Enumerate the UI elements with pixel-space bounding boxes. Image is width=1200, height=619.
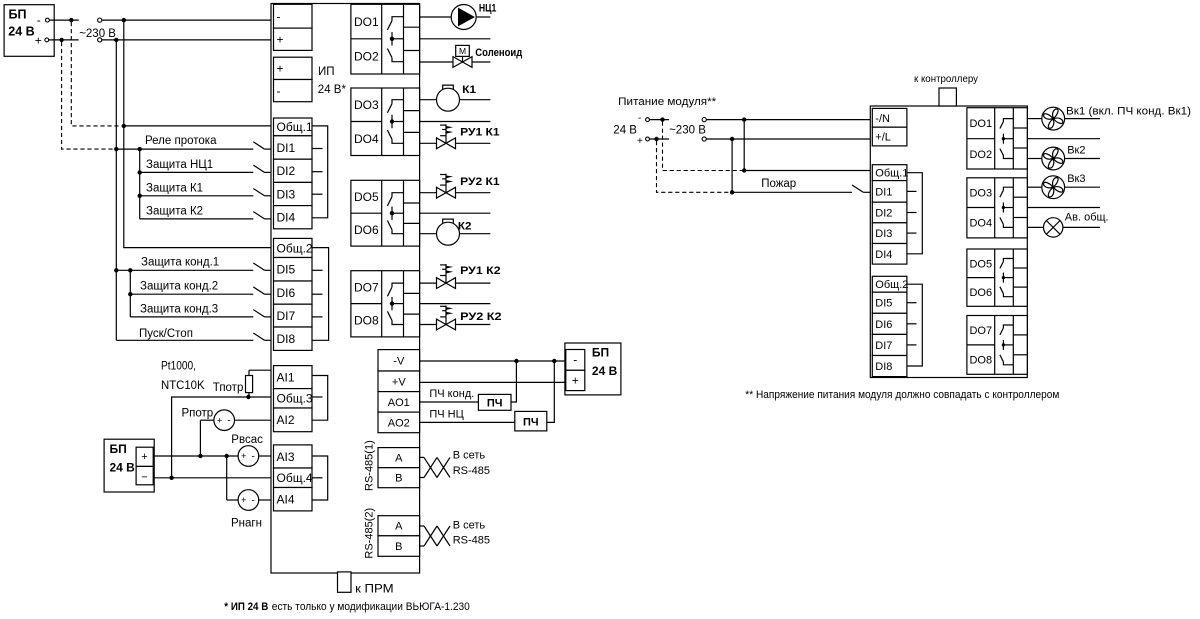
svg-text:DI4: DI4 [875,249,892,261]
svg-text:Общ.3: Общ.3 [277,392,313,406]
wire after НЦ1 [476,16,490,18]
svg-text:DI1: DI1 [277,141,296,155]
wire to Общ.1 (right) [744,170,872,172]
svg-text:AI3: AI3 [277,450,295,464]
wire after lamp [1063,226,1100,228]
svg-text:Рвсас: Рвсас [231,434,263,446]
svg-text:Защита К2: Защита К2 [146,206,203,218]
terminal B (RS-485(2)) [378,536,420,557]
terminal DI1 [274,136,313,159]
svg-text:-/N: -/N [875,113,890,125]
svg-text:Ав. общ.: Ав. общ. [1065,212,1109,224]
terminal DI4 [274,206,313,229]
svg-text:Общ.1: Общ.1 [875,168,908,180]
wire switch to module plus terminal [102,39,274,41]
wire DO5/DO6 common [420,212,491,214]
vertical to Рнагн [226,456,228,500]
junction rail/DI1 feeder [114,147,118,151]
relay output block DO5/DO6 [351,180,420,246]
junction rail/Защита конд.1 [114,268,118,272]
relay output block DO3/DO4 [351,88,420,156]
junction common [169,476,173,480]
svg-text:DO2: DO2 [969,149,992,161]
module supply minus terminal [638,113,649,124]
contact Реле протока [253,142,264,149]
svg-text:24 В: 24 В [613,125,637,137]
wire DO4 to lamp Ав. общ. [1027,226,1043,228]
wire DO2 to fan Вк2 [1027,158,1042,160]
dashed alternative supply rail A [71,22,122,126]
terminal B (RS-485(1)) [378,468,420,488]
terminal DI3 [274,182,313,205]
svg-text:24 В: 24 В [110,461,136,475]
wire to -/N [706,119,872,121]
dashed rail minus (right) [663,122,743,171]
svg-text:DO4: DO4 [354,132,379,146]
footnote left [224,601,469,613]
wire БП+ to AI3 row [153,455,238,457]
module supply plus terminal [637,136,649,147]
svg-text:НЦ1: НЦ1 [479,3,497,15]
solenoid valve РУ1 К1 [437,124,456,148]
svg-text:AO2: AO2 [388,417,410,429]
internal bracket Общ.1-DI4 [312,126,328,218]
svg-text:В сеть: В сеть [453,449,486,461]
svg-text:Общ.2: Общ.2 [277,241,313,255]
terminal AI3 [274,445,313,468]
switch pole (plus) [98,38,102,42]
wire to +/L [706,138,872,140]
pressure sensor Рнагн [238,490,259,511]
svg-text:Тпотр: Тпотр [213,382,244,394]
svg-text:24 В: 24 В [8,25,34,39]
svg-text:Рнагн: Рнагн [231,518,262,530]
svg-text:БП: БП [592,346,609,360]
junction dashed plus (right) [654,137,658,141]
contact Защита конд.1 [253,263,264,270]
svg-text:РУ1 К1: РУ1 К1 [460,127,500,139]
junction feeder x130 [128,268,132,272]
wire Защита К2 to DI4 [140,218,254,220]
svg-text:БП: БП [9,8,27,22]
svg-text:** Напряжение питания модуля д: ** Напряжение питания модуля должно совп… [745,389,1059,401]
wire to Общ.1 [124,125,274,127]
svg-text:24 В: 24 В [592,364,618,378]
svg-text:DO8: DO8 [969,355,992,367]
internal bracket Общ.2-DI8 (right) [907,284,922,366]
svg-text:ПЧ конд.: ПЧ конд. [429,388,474,400]
svg-text:ПЧ: ПЧ [487,397,503,409]
svg-text:Рпотр: Рпотр [182,407,214,419]
svg-text:RS-485(2): RS-485(2) [364,508,376,559]
wire DO3 to fan Вк3 [1027,186,1042,188]
wire DO1 to pump НЦ1 [420,16,452,18]
svg-text:+: + [572,374,579,388]
junction feeder x140 [138,147,142,151]
wire after РУ1 К2 [456,282,491,284]
wire Пожар to DI1 (right) [732,191,852,193]
junction on minus wire [69,18,73,22]
twisted pair RS-485(1) [420,457,450,477]
svg-text:DI1: DI1 [875,186,892,198]
junction rail/DI1 (right) [730,190,734,194]
svg-text:к контроллеру: к контроллеру [914,73,979,85]
solenoid valve РУ2 К2 [437,306,456,330]
wire after Вк3 [1065,186,1100,188]
svg-text:-: - [277,84,281,98]
frequency drive ПЧ (НЦ) [515,411,547,431]
junction on plus wire [59,38,63,42]
svg-text:RS-485: RS-485 [453,465,490,477]
wire resistor to AI1 [249,369,274,371]
terminal -/N (right) [872,108,907,127]
terminal DI7 (right) [872,334,907,355]
svg-text:DO3: DO3 [969,188,992,200]
junction dashed minus (right) [660,117,664,121]
pump НЦ1 [451,5,476,30]
connector к контроллеру [914,73,979,106]
terminal A (RS-485(2)) [378,516,420,536]
wire DO6 to К2 [420,233,437,235]
wire Рнагн to AI4 [259,499,274,501]
feeder vertical for DI2-DI4 [139,149,141,219]
rail -/N to Общ.1 [743,120,745,171]
power supply БП 24 В (bottom left) [104,439,154,492]
svg-text:+: + [277,62,284,76]
relay output block DO1/DO2 [967,108,1027,169]
terminal DI8 [274,327,313,350]
svg-text:Общ.4: Общ.4 [277,471,313,485]
svg-text:+: + [637,136,643,147]
wire after РУ2 К2 [456,324,491,326]
svg-text:AI4: AI4 [277,493,295,507]
common vertical to Общ.3 [172,397,247,478]
wire DO4 to РУ1 К1 [420,142,437,144]
terminal Общ.4 [274,468,313,488]
svg-text:~230 В: ~230 В [669,124,706,136]
svg-text:+/L: +/L [875,132,891,144]
terminal DI1 (right) [872,181,907,203]
switch pole minus (right) [702,118,706,122]
wire DO1 to fan Вк1 [1027,118,1042,120]
svg-text:DI4: DI4 [277,211,296,225]
wire БП- to switch [49,19,78,21]
controller module (right) body [870,106,1027,378]
internal bracket AI3-AI4 [312,456,328,500]
svg-text:+: + [141,451,147,463]
wire +V bus [420,381,566,383]
svg-text:РУ2 К1: РУ2 К1 [460,176,500,188]
frequency drive ПЧ (конд.) [478,394,511,410]
svg-text:RS-485: RS-485 [453,534,490,546]
terminal + (power in) [274,28,313,50]
24 V plus rail (vertical) [115,40,117,340]
wire Рпотр to AI2 [235,419,274,421]
rail +/L to DI1 [731,139,733,192]
svg-text:DI7: DI7 [875,340,892,352]
svg-text:A: A [395,521,403,533]
junction rail/Общ.1 [122,124,126,128]
relay output block DO1/DO2 [351,4,420,74]
wire DO3 to К1 [420,99,437,101]
wire БП− to Общ.4 [153,477,273,479]
terminal DI3 (right) [872,223,907,244]
wire Защита конд.3 to DI7 [130,316,253,318]
fan Вк1 [1042,107,1065,130]
terminal AI1 [274,366,313,389]
svg-text:В сеть: В сеть [453,519,486,531]
wire Защита НЦ1 to DI2 [140,171,254,173]
feeder vertical for DI6-DI7 [129,270,131,317]
svg-text:24 В*: 24 В* [318,84,347,96]
svg-text:Вк3: Вк3 [1067,173,1085,185]
terminal DI6 (right) [872,313,907,334]
wire DO2 to solenoid valve [420,61,453,63]
svg-text:ПЧ НЦ: ПЧ НЦ [429,409,463,421]
svg-text:DO7: DO7 [354,281,379,295]
svg-text:Pt1000,: Pt1000, [161,361,196,373]
svg-text:Защита конд.3: Защита конд.3 [140,304,218,316]
svg-text:Соленоид: Соленоид [475,47,522,59]
svg-text:М: М [459,46,466,56]
terminal DI6 [274,281,313,304]
controller module (left) body [271,4,420,574]
pressure sensor Рпотр [214,410,235,431]
junction Общ.3/resistor [246,395,250,399]
svg-text:-: - [252,495,255,506]
wire AO2 to ПЧ НЦ [420,421,515,423]
wire Пуск/Стоп to DI8 [116,339,253,341]
contact Пуск/Стоп [253,333,264,340]
terminal AI4 [274,488,313,511]
wire Защита конд.1 to DI5 [116,269,253,271]
svg-text:DO6: DO6 [969,287,992,299]
resistor Тпотр (Pt1000/NTC10K) [246,370,253,397]
wire Защита К1 to DI3 [140,195,254,197]
svg-text:Пуск/Стоп: Пуск/Стоп [139,328,193,340]
svg-text:−: − [141,471,147,483]
terminal Общ.2 (right) [872,276,907,292]
wire switch to module minus terminal [102,19,274,21]
svg-text:есть только у модификации ВЬЮГ: есть только у модификации ВЬЮГА-1.230 [272,601,470,613]
svg-text:~230 В: ~230 В [79,28,116,40]
svg-text:DI8: DI8 [875,361,892,373]
svg-text:DI8: DI8 [277,332,296,346]
junction AI feed 1 [198,454,202,458]
svg-text:+: + [217,415,222,425]
fan Вк2 [1042,147,1065,170]
fan Вк3 [1042,176,1065,199]
terminal A (RS-485(1)) [378,448,420,468]
svg-text:РУ1 К2: РУ1 К2 [460,265,501,277]
terminal Общ.1 [274,118,313,136]
svg-text:+: + [241,495,246,505]
svg-text:AI2: AI2 [277,413,295,427]
svg-text:DI7: DI7 [277,309,296,323]
wire DO7/DO8 common [420,303,491,305]
terminal DI8 (right) [872,356,907,377]
wire after К2 [460,233,491,235]
junction minus rail [122,18,126,22]
svg-text:+V: +V [392,376,406,388]
svg-text:Защита НЦ1: Защита НЦ1 [146,159,213,171]
svg-text:DO2: DO2 [354,50,379,64]
power supply БП 24 В (right of left module) [565,343,621,395]
svg-text:+: + [277,33,284,47]
svg-text:NTC10K: NTC10K [161,380,205,392]
wire after РУ2 К1 [456,192,491,194]
wire Общ.3 segment [248,396,273,398]
compressor К2 [437,219,460,245]
wire БП+ to switch [49,39,79,41]
svg-text:DO6: DO6 [354,223,379,237]
wire after solenoid [472,61,490,63]
alarm lamp Ав. общ. [1044,218,1063,237]
svg-text:к ПРМ: к ПРМ [355,583,394,595]
terminal DI2 (right) [872,202,907,223]
dashed rail plus (right) [657,141,731,192]
contact Защита НЦ1 [253,165,264,172]
wire -V bus [420,360,566,362]
junction feeder/DI3 [138,194,142,198]
svg-text:Вк2: Вк2 [1067,145,1085,157]
solenoid valve РУ2 К1 [437,174,456,198]
wire to Рнагн sensor [227,499,238,501]
terminal - (ИП out) [274,80,313,102]
switch pole plus (right) [702,137,706,141]
terminal AO1 [378,392,420,413]
wire after Вк1 [1065,118,1100,120]
terminal Общ.3 [274,389,313,408]
svg-text:DO8: DO8 [354,314,379,328]
internal bracket Общ.2-DI8 [312,248,329,341]
junction plus rail [114,38,118,42]
relay output block DO3/DO4 [967,178,1027,238]
pressure sensor Рвсас [238,446,259,467]
wire DO8 to РУ2 К2 [420,324,437,326]
wire DO5 to РУ2 К1 [420,192,437,194]
svg-text:DI2: DI2 [277,164,296,178]
svg-text:DO4: DO4 [969,218,992,230]
junction AI feed 2 [225,454,229,458]
twisted pair RS-485(2) [420,526,450,546]
svg-text:-: - [252,451,255,462]
svg-text:-V: -V [393,355,405,367]
svg-text:DI5: DI5 [277,263,296,277]
svg-text:-: - [638,113,641,124]
contact Защита конд.2 [253,287,264,294]
junction -V/ПЧ1 [514,359,518,363]
relay output block DO7/DO8 [967,316,1027,375]
svg-text:DI5: DI5 [875,298,892,310]
junction feeder/DI6 [128,292,132,296]
wire after К1 [460,99,491,101]
24 V minus rail (vertical) [124,20,274,248]
wire ПЧ2 to -V bus [547,361,555,422]
svg-text:DI3: DI3 [875,228,892,240]
terminal AI2 [274,408,313,432]
svg-text:Пожар: Пожар [761,178,796,190]
svg-text:РУ2 К2: РУ2 К2 [460,311,502,323]
wire DO3/DO4 common [420,121,491,123]
svg-text:DO5: DO5 [969,258,992,270]
svg-text:ИП: ИП [318,66,335,78]
БП minus terminal [46,18,50,22]
terminal +/L (right) [872,127,907,146]
terminal Общ.2 [274,238,313,257]
svg-text:AO1: AO1 [388,397,410,409]
wire minus to switch (right) [650,119,670,121]
svg-text:Общ.1: Общ.1 [277,120,313,134]
svg-text:БП: БП [110,442,127,456]
wire Реле протока to DI1 [116,148,253,150]
junction +/L rail [730,137,734,141]
junction -/N rail [742,117,746,121]
solenoid valve РУ1 К2 [437,264,456,288]
terminal DI5 (right) [872,292,907,313]
svg-text:B: B [395,473,402,485]
БП plus terminal [45,38,49,42]
contact Защита К1 [253,189,264,196]
terminal + (ИП out) [274,57,313,79]
wire DO1/DO2 common [420,38,491,40]
terminal AO2 [378,412,420,433]
compressor К1 [437,85,460,111]
svg-text:ПЧ: ПЧ [523,416,539,428]
svg-text:A: A [395,453,403,465]
terminal DI5 [274,258,313,282]
svg-text:+: + [241,451,246,461]
svg-text:DI3: DI3 [277,187,296,201]
svg-text:AI1: AI1 [277,370,295,384]
svg-text:К2: К2 [458,221,472,233]
svg-text:-: - [277,10,281,24]
terminal DI4 (right) [872,244,907,265]
svg-text:* ИП 24 В: * ИП 24 В [224,601,268,613]
svg-text:Общ.2: Общ.2 [875,279,908,291]
relay output block DO5/DO6 [967,249,1027,306]
terminal -V [378,350,420,371]
svg-text:-: - [37,13,41,27]
internal bracket Общ.1-DI4 (right) [907,173,922,254]
wire AO1 to ПЧ конд. [420,401,479,403]
solenoid valve Соленоид [453,45,472,67]
svg-text:К1: К1 [462,84,476,96]
svg-text:DI2: DI2 [875,208,892,220]
svg-text:RS-485(1): RS-485(1) [364,440,376,491]
wire Защита конд.2 to DI6 [130,293,253,295]
power supply БП 24 В (top left) [4,5,54,57]
wire after Вк2 [1065,158,1100,160]
terminal DI7 [274,304,313,327]
svg-text:Защита конд.1: Защита конд.1 [141,257,219,269]
internal bracket AI1-AI2 [312,376,328,421]
wire Рвсас to AI3 [259,455,274,457]
wire after РУ1 К1 [456,142,491,144]
wire DO3/DO4 common (right) [1027,207,1100,209]
junction feeder/DI2 [138,170,142,174]
wire DO1/DO2 common (right) [1027,138,1100,140]
svg-text:Реле протока: Реле протока [145,135,217,147]
svg-text:DO3: DO3 [354,98,379,112]
svg-text:Защита К1: Защита К1 [146,182,203,194]
wire to Рпотр sensor [200,419,214,421]
svg-text:Вк1 (вкл. ПЧ конд. Вк1): Вк1 (вкл. ПЧ конд. Вк1) [1066,106,1191,118]
svg-text:Питание модуля**: Питание модуля** [618,96,717,108]
svg-text:DO1: DO1 [354,15,379,29]
junction rail/Общ.1 (right) [742,168,746,172]
contact Пожар [852,185,872,192]
